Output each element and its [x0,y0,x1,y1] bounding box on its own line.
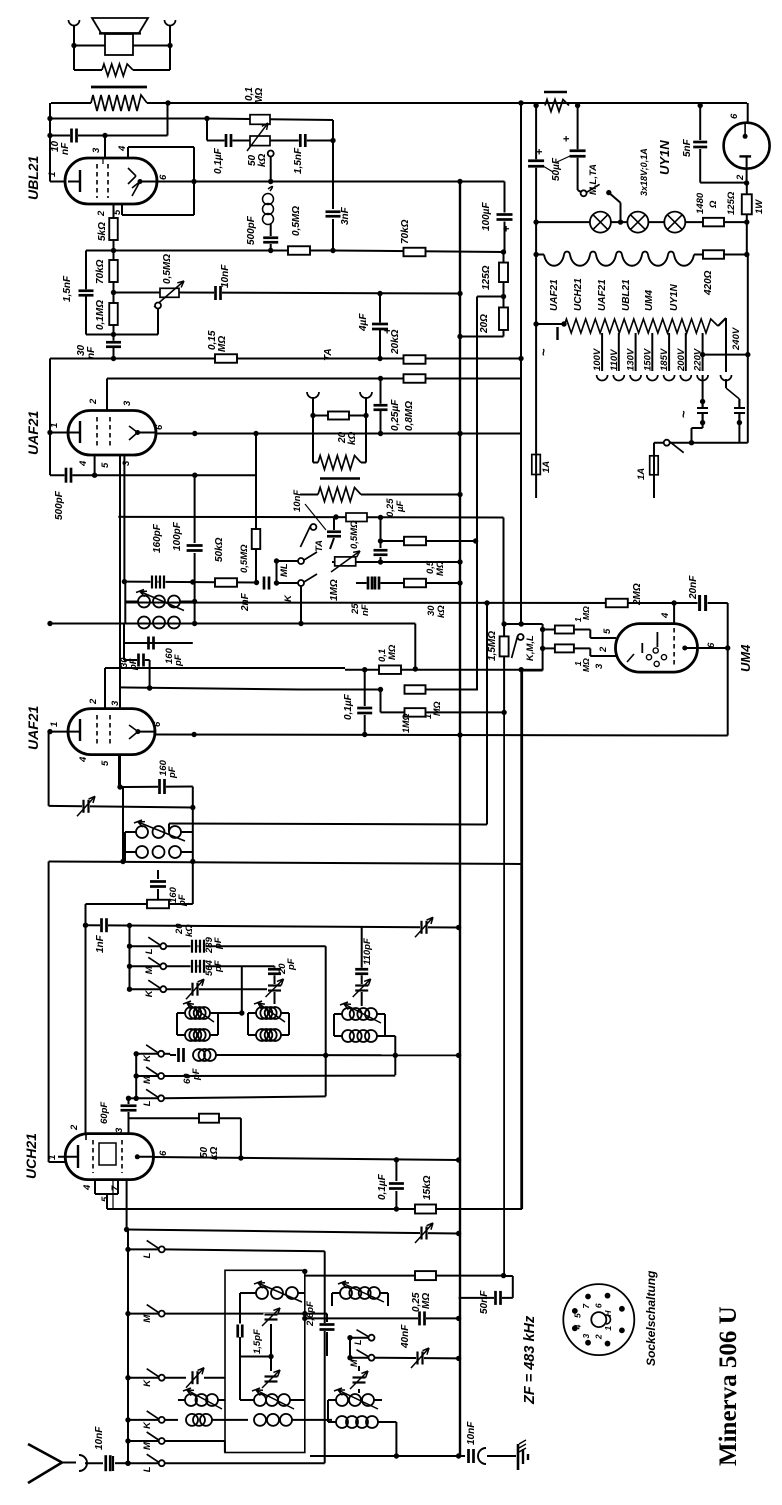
svg-text:3: 3 [122,400,133,406]
svg-text:UM4: UM4 [644,289,655,311]
svg-text:3: 3 [114,1127,125,1133]
svg-text:100µF: 100µF [481,202,492,231]
svg-text:125Ω: 125Ω [481,265,492,290]
svg-text:150V: 150V [642,348,653,371]
svg-text:pF: pF [173,654,184,667]
svg-text:0,25µF: 0,25µF [390,399,401,431]
svg-text:0,1µF: 0,1µF [213,147,224,174]
svg-text:K: K [144,989,155,997]
svg-text:1W: 1W [754,199,765,214]
svg-text:K: K [283,594,294,602]
svg-text:MΩ: MΩ [217,336,228,352]
svg-text:6: 6 [152,721,163,727]
svg-text:pF: pF [177,894,188,907]
svg-text:5: 5 [100,760,111,766]
svg-text:L: L [142,1466,153,1472]
svg-text:125Ω: 125Ω [726,191,737,215]
svg-text:3: 3 [581,1334,591,1339]
svg-text:3nF: 3nF [340,206,351,225]
svg-text:4: 4 [78,460,89,467]
svg-text:6: 6 [158,1150,169,1156]
svg-text:20kΩ: 20kΩ [390,329,401,355]
svg-text:M: M [142,1314,153,1323]
svg-text:~: ~ [536,348,551,356]
svg-text:Minerva 506 U: Minerva 506 U [715,1306,742,1466]
svg-text:1A: 1A [636,468,647,480]
svg-text:1480: 1480 [695,192,706,214]
svg-text:60pF: 60pF [99,1102,110,1124]
svg-text:3: 3 [91,147,102,153]
svg-text:185V: 185V [659,348,670,371]
svg-text:L: L [144,948,155,954]
svg-text:500pF: 500pF [54,490,65,520]
svg-text:MΩ: MΩ [435,560,446,576]
svg-text:3: 3 [121,460,132,466]
svg-text:200V: 200V [676,348,687,372]
svg-text:40nF: 40nF [400,1324,411,1349]
svg-text:6: 6 [154,424,165,430]
svg-text:70kΩ: 70kΩ [95,259,106,284]
svg-text:0,5MΩ: 0,5MΩ [239,544,250,573]
svg-text:1A: 1A [541,461,552,473]
svg-text:TA: TA [323,348,334,361]
svg-text:2: 2 [96,210,107,217]
svg-text:L: L [142,1100,153,1106]
svg-text:2: 2 [88,698,99,705]
svg-text:5: 5 [602,628,613,634]
svg-text:7: 7 [110,1185,121,1191]
svg-text:1,5nF: 1,5nF [62,275,73,302]
svg-text:K: K [142,1421,153,1429]
svg-text:0,1µF: 0,1µF [343,693,354,720]
svg-text:pF: pF [286,958,297,971]
svg-text:L: L [353,1340,363,1346]
svg-text:+: + [561,136,573,142]
svg-text:UY1N: UY1N [657,140,672,175]
svg-text:10nF: 10nF [466,1421,477,1445]
svg-text:MΩ: MΩ [387,644,398,660]
svg-text:pF: pF [213,937,224,950]
svg-text:3x18V;0,1A: 3x18V;0,1A [639,148,649,196]
svg-text:nF: nF [60,142,71,155]
svg-text:1,5pF: 1,5pF [252,1329,263,1354]
svg-text:M,L,TA: M,L,TA [588,164,599,195]
svg-text:4: 4 [78,756,89,763]
svg-text:10nF: 10nF [220,264,231,288]
svg-text:2: 2 [88,398,99,405]
svg-text:0,5MΩ: 0,5MΩ [349,520,360,549]
svg-text:ZF = 483 kHz: ZF = 483 kHz [522,1315,538,1405]
svg-text:MΩ: MΩ [421,1293,432,1309]
svg-text:pF: pF [213,960,224,973]
svg-text:UM4: UM4 [738,644,753,672]
svg-text:1: 1 [49,423,60,428]
svg-text:0,1µF: 0,1µF [377,1173,388,1200]
svg-text:5: 5 [572,1313,582,1318]
svg-text:UAF21: UAF21 [597,279,608,311]
svg-text:M: M [144,965,155,974]
svg-text:2: 2 [593,1334,603,1340]
svg-text:0,5MΩ: 0,5MΩ [291,206,302,236]
svg-text:5kΩ: 5kΩ [97,222,108,241]
svg-text:20nF: 20nF [688,575,699,600]
svg-text:pF: pF [167,766,178,779]
svg-text:3: 3 [594,663,605,669]
svg-text:nF: nF [86,346,97,359]
svg-text:kΩ: kΩ [209,1146,220,1160]
svg-text:MΩ: MΩ [581,606,591,620]
svg-text:4: 4 [660,612,671,619]
svg-text:160pF: 160pF [152,523,163,553]
svg-text:5: 5 [100,462,111,468]
svg-text:L: L [142,1252,153,1258]
svg-text:M: M [349,1359,359,1367]
svg-text:+: + [534,149,546,155]
svg-text:UAF21: UAF21 [25,410,41,455]
svg-text:UAF21: UAF21 [25,705,41,750]
svg-text:0,1MΩ: 0,1MΩ [95,300,106,330]
svg-text:MΩ: MΩ [581,658,591,672]
svg-text:10nF: 10nF [292,490,303,512]
svg-text:1: 1 [49,722,60,727]
svg-text:5: 5 [100,1196,111,1202]
svg-text:MΩ: MΩ [432,701,442,716]
svg-text:MΩ: MΩ [254,88,265,104]
svg-text:pF: pF [191,1068,202,1081]
svg-text:100pF: 100pF [172,521,183,551]
svg-text:1nF: 1nF [95,934,106,953]
svg-text:1: 1 [603,1326,613,1331]
svg-text:130V: 130V [626,348,637,371]
svg-text:220V: 220V [693,348,704,372]
svg-text:500pF: 500pF [246,215,257,245]
svg-text:1: 1 [47,1155,58,1160]
svg-text:6: 6 [706,642,717,648]
svg-text:Sockelschaltung: Sockelschaltung [644,1270,658,1366]
svg-text:110pF: 110pF [362,938,373,965]
svg-text:50nF: 50nF [479,1290,490,1314]
svg-text:H: H [603,1310,613,1317]
svg-text:~: ~ [676,410,691,418]
svg-text:6: 6 [593,1303,603,1308]
svg-text:2: 2 [69,1124,80,1131]
svg-text:1MΩ: 1MΩ [329,579,340,601]
svg-text:0,8MΩ: 0,8MΩ [404,401,415,431]
svg-text:70kΩ: 70kΩ [400,219,411,244]
svg-text:100V: 100V [592,348,603,371]
svg-text:UCH21: UCH21 [23,1133,39,1179]
svg-text:1: 1 [47,172,58,177]
svg-text:Ω: Ω [708,200,719,209]
svg-text:nF: nF [360,604,371,616]
svg-text:UCH21: UCH21 [573,278,584,311]
svg-text:20Ω: 20Ω [479,314,490,334]
svg-text:4: 4 [572,1324,582,1330]
svg-text:K: K [142,1379,153,1387]
svg-text:UBL21: UBL21 [25,155,41,200]
svg-text:6: 6 [158,174,169,180]
svg-text:4µF: 4µF [358,313,369,332]
svg-text:2,6pF: 2,6pF [305,1301,316,1327]
svg-text:240V: 240V [731,327,742,351]
svg-text:5nF: 5nF [682,138,693,157]
svg-text:0,5MΩ: 0,5MΩ [162,254,173,284]
svg-text:4: 4 [82,1184,93,1191]
svg-text:K: K [142,1054,153,1062]
svg-text:15kΩ: 15kΩ [422,1175,433,1200]
svg-text:ML: ML [279,563,290,577]
svg-text:M: M [142,1441,153,1450]
svg-text:50kΩ: 50kΩ [214,537,225,562]
svg-text:kΩ: kΩ [257,153,268,167]
svg-text:kΩ: kΩ [436,605,447,618]
svg-text:2: 2 [735,174,746,181]
svg-text:6: 6 [729,113,740,119]
svg-text:M: M [142,1075,153,1084]
svg-text:4: 4 [117,145,128,152]
svg-text:2MΩ: 2MΩ [632,583,643,606]
svg-text:+: + [501,226,513,232]
svg-text:UBL21: UBL21 [621,279,632,311]
svg-text:K,M,L: K,M,L [525,635,536,661]
svg-text:UAF21: UAF21 [549,279,560,311]
svg-text:TA: TA [314,540,325,552]
svg-text:pF: pF [128,658,139,671]
svg-text:1,5MΩ: 1,5MΩ [487,631,498,661]
svg-text:1,5nF: 1,5nF [293,147,304,174]
svg-text:420Ω: 420Ω [703,270,714,296]
svg-text:10nF: 10nF [94,1426,105,1450]
svg-text:UY1N: UY1N [669,284,680,311]
svg-text:1MΩ: 1MΩ [401,713,411,733]
svg-text:110V: 110V [609,349,620,371]
svg-text:2: 2 [598,646,609,653]
svg-text:µF: µF [395,501,406,513]
